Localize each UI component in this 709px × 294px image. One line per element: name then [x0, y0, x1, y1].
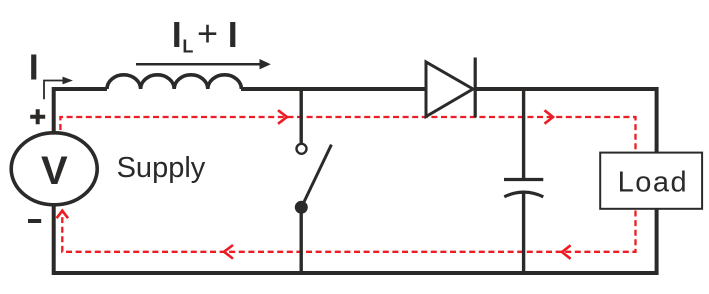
- input current elbow arrow: [44, 81, 64, 100]
- diode cathode bar: [474, 58, 477, 118]
- voltage source V (supply): [11, 133, 97, 205]
- svg-text:V: V: [41, 149, 68, 193]
- wire: switch branch lower segment: [300, 208, 303, 273]
- inductor current arrow: [136, 63, 261, 66]
- red arrow on top line (left): [278, 110, 287, 124]
- wire: diode cathode along top, down right side, along bottom, up to supply bottom: [54, 89, 657, 273]
- wire: supply top lead and top-left wire to inductor: [54, 89, 107, 132]
- red arrow on top line (right): [545, 110, 554, 123]
- plus terminal label: [30, 109, 45, 124]
- red arrow on bottom line (left): [224, 245, 233, 259]
- wire: inductor to diode anode: [241, 87, 425, 91]
- wire: switch branch upper segment: [300, 87, 303, 143]
- red arrow up into supply minus terminal: [57, 211, 68, 219]
- svg-text:+: +: [197, 13, 218, 54]
- switch pivot junction dot: [295, 201, 308, 214]
- load box: [600, 153, 702, 209]
- svg-text:Supply: Supply: [117, 152, 206, 184]
- capacitor C top plate: [504, 178, 543, 181]
- red arrow on bottom line (right): [562, 245, 571, 258]
- svg-text:I: I: [172, 14, 182, 55]
- diode D triangle: [426, 62, 473, 117]
- minus terminal label: [28, 219, 41, 223]
- capacitor C curved plate: [504, 192, 543, 197]
- svg-text:I: I: [228, 14, 238, 55]
- svg-text:Load: Load: [618, 167, 689, 199]
- switch blade: [304, 145, 332, 203]
- switch open contact circle: [297, 144, 307, 154]
- inductor L: [107, 75, 241, 89]
- svg-text:I: I: [29, 46, 39, 87]
- wire: capacitor branch upper segment: [522, 87, 525, 178]
- svg-text:L: L: [182, 37, 193, 57]
- red dashed current-flow loop: [60, 117, 635, 252]
- wire: capacitor branch lower segment: [522, 193, 525, 274]
